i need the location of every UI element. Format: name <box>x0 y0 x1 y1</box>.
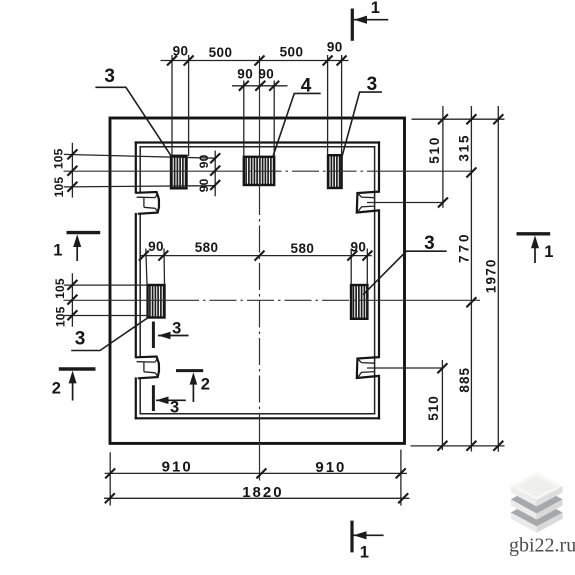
svg-text:770: 770 <box>457 231 472 263</box>
svg-text:105: 105 <box>53 278 67 299</box>
svg-text:3: 3 <box>75 329 86 350</box>
svg-text:90: 90 <box>258 66 274 81</box>
svg-text:105: 105 <box>52 177 66 198</box>
svg-text:3: 3 <box>104 66 115 87</box>
svg-text:105: 105 <box>53 306 67 327</box>
svg-text:910: 910 <box>315 459 346 476</box>
svg-text:gbi22.ru: gbi22.ru <box>509 535 575 557</box>
svg-text:500: 500 <box>280 45 304 60</box>
svg-text:90: 90 <box>350 239 366 254</box>
svg-text:1820: 1820 <box>242 484 283 501</box>
svg-text:3: 3 <box>172 320 181 338</box>
svg-text:90: 90 <box>173 44 189 59</box>
svg-text:90: 90 <box>197 154 211 168</box>
svg-text:90: 90 <box>197 178 211 192</box>
svg-text:510: 510 <box>426 395 441 421</box>
svg-text:2: 2 <box>201 376 210 394</box>
svg-text:1970: 1970 <box>483 258 498 293</box>
svg-text:315: 315 <box>457 134 472 162</box>
svg-text:4: 4 <box>301 75 312 96</box>
svg-text:3: 3 <box>367 74 378 95</box>
svg-text:2: 2 <box>52 380 61 398</box>
svg-text:90: 90 <box>327 39 343 54</box>
svg-text:910: 910 <box>162 459 193 476</box>
svg-text:90: 90 <box>148 239 164 254</box>
svg-text:3: 3 <box>170 399 179 417</box>
svg-text:580: 580 <box>291 241 315 256</box>
svg-text:1: 1 <box>53 242 62 260</box>
svg-text:90: 90 <box>237 66 253 81</box>
svg-text:105: 105 <box>52 148 66 169</box>
svg-text:500: 500 <box>209 45 233 60</box>
svg-text:1: 1 <box>371 0 380 17</box>
svg-text:1: 1 <box>360 544 369 562</box>
svg-text:3: 3 <box>424 233 435 254</box>
svg-text:580: 580 <box>195 240 219 255</box>
svg-text:510: 510 <box>427 136 442 164</box>
svg-text:1: 1 <box>544 243 553 261</box>
svg-text:885: 885 <box>457 367 472 393</box>
